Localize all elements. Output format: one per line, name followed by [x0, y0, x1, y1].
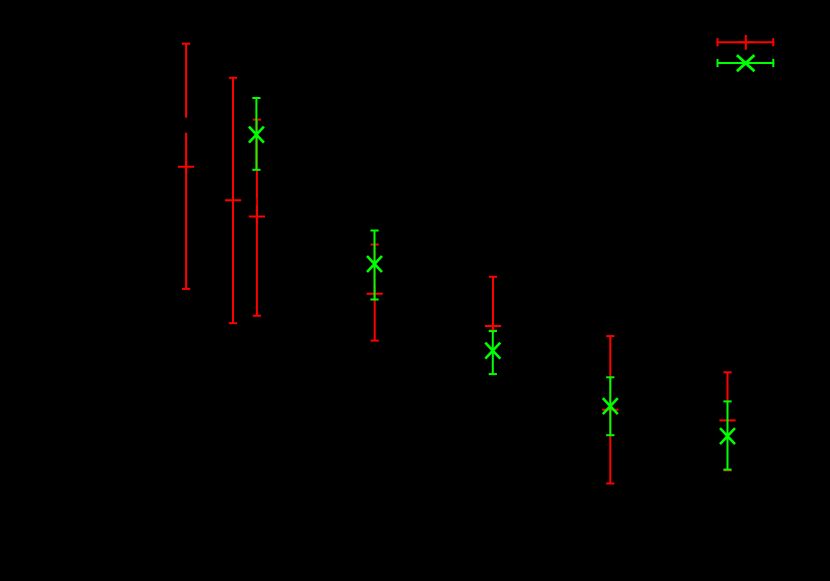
red errorbar 4: [367, 245, 383, 341]
green errorbar 1: [249, 98, 264, 170]
red errorbar 5: [485, 277, 501, 334]
green errorbar 5: [720, 401, 735, 469]
red errorbar 6: [602, 336, 618, 483]
black notch over red bar 3: [255, 199, 257, 206]
red errorbar 1: [178, 44, 194, 289]
green legend sample: [717, 55, 775, 71]
red legend sample: [717, 35, 775, 50]
black gap over red bar 1: [184, 118, 189, 133]
green errorbar 2: [367, 231, 382, 300]
red errorbar 3: [249, 120, 265, 316]
red series (plus markers, errorbars): [178, 35, 774, 484]
red errorbar 7: [719, 372, 735, 470]
green errorbar 4: [603, 377, 618, 435]
green errorbar 3: [485, 331, 500, 374]
green series (x markers, errorbars): [249, 55, 774, 470]
red errorbar 2: [225, 78, 241, 323]
